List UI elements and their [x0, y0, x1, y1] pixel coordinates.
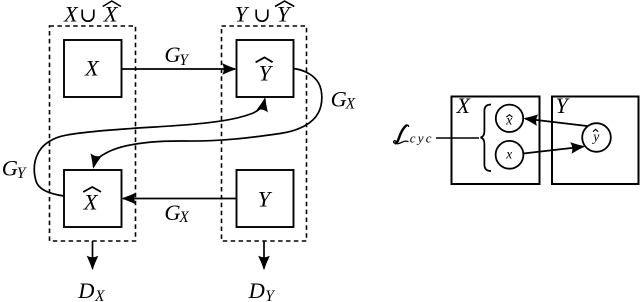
svg-text:X: X [83, 190, 99, 215]
arrow Y to X-hat [123, 198, 237, 200]
curve G_Y X-hat to Y-hat [34, 99, 265, 196]
square X-hat [64, 170, 122, 227]
label y-hat [591, 129, 599, 144]
svg-text:DY: DY [248, 278, 276, 302]
solid rect X (right figure) [452, 97, 540, 185]
svg-text:GX: GX [331, 87, 356, 113]
svg-text:X: X [456, 94, 472, 118]
svg-text:Y: Y [259, 60, 274, 85]
line L_cyc to brace [436, 137, 479, 139]
svg-text:Y: Y [258, 187, 273, 212]
arrow to D_X [92, 241, 94, 269]
label X-hat in square [83, 187, 101, 215]
svg-text:DX: DX [77, 278, 105, 302]
square X [64, 40, 122, 97]
solid rect Y (right figure) [552, 97, 639, 185]
svg-text:Y: Y [235, 1, 250, 26]
curve G_X Y-hat to X-hat [94, 69, 322, 168]
label X union X-hat [63, 1, 121, 26]
svg-text:GX: GX [164, 200, 189, 226]
svg-text:GY: GY [164, 42, 189, 69]
svg-text:Y: Y [277, 1, 292, 26]
label x-hat [505, 112, 512, 127]
label L_cyc [394, 125, 434, 145]
square Y [237, 170, 294, 227]
svg-text:X: X [84, 55, 100, 80]
svg-text:GY: GY [2, 155, 27, 182]
dashed box X union X-hat [50, 26, 136, 241]
svg-text:Y: Y [556, 94, 571, 118]
brace grouping x-hat and x [481, 105, 492, 172]
svg-text:x: x [505, 147, 512, 162]
arrow X to Y-hat [122, 68, 236, 70]
svg-text:X: X [63, 1, 79, 26]
arrow to D_Y [263, 241, 265, 269]
square Y-hat [237, 40, 294, 97]
label Y union Y-hat [235, 1, 294, 26]
circle x [496, 141, 524, 169]
arrow y-hat to x-hat [525, 119, 587, 126]
circle x-hat [496, 105, 523, 132]
circle y-hat [582, 123, 611, 152]
label Y-hat in square [256, 57, 274, 85]
dashed box Y union Y-hat [222, 26, 307, 241]
arrow x to y-hat [523, 147, 583, 154]
svg-text:cyc: cyc [410, 130, 434, 145]
